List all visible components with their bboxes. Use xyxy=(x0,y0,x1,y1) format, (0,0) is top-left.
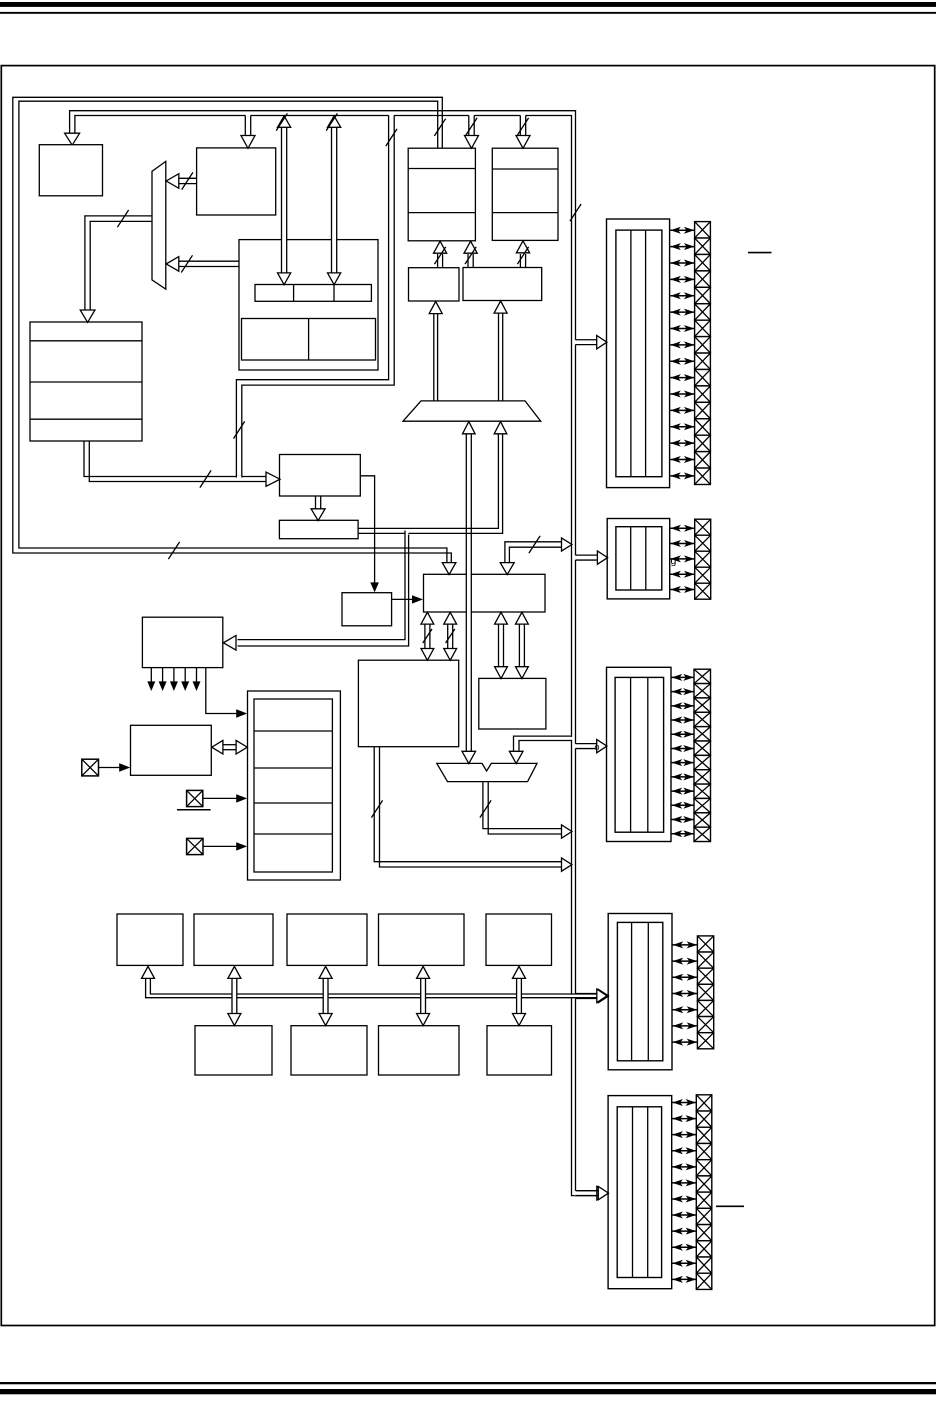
port block 2 inner divider 2 xyxy=(645,527,647,590)
thin wire box13 to stack xyxy=(206,668,237,714)
up arrowhead into row1 box xyxy=(228,966,241,978)
TRAP1 horizontal trapezoid xyxy=(403,401,541,421)
down arrowhead into row2 box xyxy=(228,1014,241,1026)
port block 4 inner divider 1 xyxy=(631,922,633,1060)
wire box6 up to box4 xyxy=(519,254,521,268)
port block 5 pin arrow 9 xyxy=(672,1230,696,1232)
up arrowhead into row1 box xyxy=(417,966,430,978)
port block 3 pin pad 12 xyxy=(694,827,711,841)
wire main data bus H1/B1 (inner line) xyxy=(75,116,598,1196)
box9 row line 1 xyxy=(30,340,142,342)
port block 5 pin pad 12 xyxy=(696,1273,712,1289)
box6 latch B xyxy=(463,268,542,301)
solid arrowhead into box12 top xyxy=(370,582,379,592)
stack inner box xyxy=(254,699,332,872)
wire program-memory bus loop (outer line) xyxy=(13,97,452,563)
port block 3 pin arrow 8 xyxy=(672,776,694,778)
port block 1 inner divider 1 xyxy=(630,230,632,477)
row bus riser up at x423.1 xyxy=(420,993,425,999)
row bus riser up at x519.0 xyxy=(516,993,521,999)
down arrowhead B2 into TRAP2 xyxy=(462,751,476,763)
wire box5 up to box3 xyxy=(437,254,439,268)
port block 3 pin pad 5 xyxy=(694,727,711,741)
box3 row line 2 xyxy=(408,212,475,214)
wire TRAP1 top to box5 xyxy=(433,313,435,401)
stack row line 2 xyxy=(254,767,332,769)
port block 4 inner box xyxy=(617,922,662,1060)
port block 5 pin pad 3 xyxy=(696,1127,712,1143)
box3 row line 1 xyxy=(408,168,475,170)
wire B2 TRAP1-box11-TRAP2 vertical xyxy=(467,434,471,751)
arrowhead W1 into bus xyxy=(562,825,572,838)
wire W4 box11/bus link xyxy=(505,542,562,563)
port block 3 pin arrow 4 xyxy=(672,719,694,721)
box8 xyxy=(280,455,361,497)
slash on box7-mux1 wire xyxy=(181,255,192,272)
port block 5 outer box xyxy=(608,1096,672,1289)
arrowhead W4 into bus xyxy=(562,538,572,551)
wire W3 bus to TRAP2 xyxy=(571,737,573,740)
wire mux1 output to box9 xyxy=(85,216,152,311)
up arrowhead box16 riser 2 xyxy=(516,612,529,624)
port block 1 pin pad 11 xyxy=(695,386,711,402)
port block 1 pin pad 7 xyxy=(695,320,711,336)
slash on ALU riser 2 xyxy=(446,629,455,643)
slash on program bus branch (lower vertical) xyxy=(234,421,245,438)
port block 4 pin arrow 6 xyxy=(673,1025,697,1027)
up arrowhead ALU riser 1 xyxy=(421,612,434,624)
arrowhead into port block 5 xyxy=(598,1186,608,1199)
up arrowhead at bus x334 xyxy=(328,116,341,127)
port block 1 pin pad 10 xyxy=(695,369,711,385)
port block 4 outer box xyxy=(608,914,672,1070)
up arrowhead B2 into TRAP1 xyxy=(463,422,476,434)
wire branch from bus into box3 xyxy=(469,115,474,117)
port block 2 pin pad 4 xyxy=(695,567,711,583)
row1 peripheral box a xyxy=(117,914,183,965)
port block 5 pin arrow 4 xyxy=(672,1150,696,1152)
arrowhead of bus into box1 xyxy=(65,133,80,145)
down arrowhead box16 riser 2 xyxy=(516,667,529,679)
port block 3 pin pad 1 xyxy=(694,669,711,683)
big ALU box xyxy=(358,660,458,747)
arrowhead into mux1 (lower) xyxy=(166,257,179,272)
port block 5 pin pad 7 xyxy=(696,1192,712,1208)
arrowhead into box3 top xyxy=(465,136,479,149)
box7 cell divider 2 xyxy=(333,285,335,302)
arrowhead into box8 xyxy=(266,472,280,486)
wire branch from bus into box2 xyxy=(246,115,251,117)
arrowhead into box3 bottom xyxy=(434,241,447,253)
port block 5 pin arrow 3 xyxy=(672,1134,696,1136)
thin dangling arrows below box13 xyxy=(150,668,152,682)
wire box9 bottom to box8 xyxy=(84,441,267,476)
down arrowhead ALU riser 1 xyxy=(421,649,434,661)
port block 5 inner divider 2 xyxy=(647,1107,649,1278)
port block 2 pin pad 3 xyxy=(695,551,711,567)
port block 1 pin pad 1 xyxy=(695,222,711,238)
wire bus to port block 3 xyxy=(575,744,577,749)
port block 4 pin arrow 1 xyxy=(673,944,697,946)
port block 1 pin pad 12 xyxy=(695,402,711,418)
arrowhead into box13 xyxy=(223,636,236,651)
svg-text:g: g xyxy=(671,555,677,567)
slash on riser x284 xyxy=(276,113,287,130)
wire ALU riser 1 xyxy=(424,624,426,649)
box5 latch A xyxy=(409,268,460,301)
port block 3 pin pad 7 xyxy=(694,755,711,769)
mux1 vertical trapezoid xyxy=(152,161,166,289)
slash on branch into box3 xyxy=(466,118,477,135)
port block 2 pin arrow 3 xyxy=(670,558,694,560)
port block 2 pin arrow 2 xyxy=(670,543,694,545)
row2 peripheral box d xyxy=(487,1026,552,1075)
arrowhead into box5 bottom xyxy=(429,301,442,313)
port block 3 outer box xyxy=(607,667,672,841)
arrowhead into box9 top xyxy=(80,310,95,322)
box11 wide latch xyxy=(424,574,546,612)
TRAP2 notched trapezoid xyxy=(437,763,537,781)
port block 5 pin pad 11 xyxy=(696,1257,712,1273)
port block 4 pin arrow 7 xyxy=(673,1041,697,1043)
box1 top-left register xyxy=(39,145,102,196)
box10 thin latch xyxy=(279,520,358,538)
port block 3 inner divider 2 xyxy=(647,677,649,832)
port block 5 pin arrow 7 xyxy=(672,1198,696,1200)
port block 1 pin pad 16 xyxy=(695,468,711,484)
port block 1 outer box xyxy=(607,219,670,488)
wire W1 TRAP2 output to bus xyxy=(483,782,562,829)
port block 5 pin pad 1 xyxy=(696,1095,712,1111)
tick mark right of port block 5 xyxy=(716,1205,744,1207)
slash on branch into box4 xyxy=(517,118,528,135)
arrowhead into port block 3 xyxy=(597,739,607,752)
slash on W1 xyxy=(480,800,491,817)
wire box8 down to box10 xyxy=(315,496,317,510)
port block 1 pin arrow 9 xyxy=(670,360,694,362)
port block 4 pin pad 2 xyxy=(697,952,713,968)
wire bus to port block 2 xyxy=(575,555,577,560)
port block 2 pin arrow 5 xyxy=(670,589,694,591)
port block 5 pin arrow 10 xyxy=(672,1246,696,1248)
port block 5 pin pad 10 xyxy=(696,1241,712,1257)
port block 1 pin arrow 13 xyxy=(670,426,694,428)
header thick rule xyxy=(0,2,936,7)
port block 1 pin arrow 3 xyxy=(670,262,694,264)
wire box10 to TRAP1 bottom xyxy=(358,434,498,529)
pin pad X1 (left) xyxy=(82,759,99,776)
port block 3 pin pad 9 xyxy=(694,784,711,798)
pin pad X2 xyxy=(187,790,203,806)
port block 2 inner box xyxy=(616,527,662,590)
arrowhead W4 into box11 top xyxy=(500,563,514,575)
slash on program bus branch (upper) xyxy=(386,129,397,146)
box7 lower sub-box xyxy=(242,319,376,361)
wire peripheral row bus xyxy=(570,995,576,997)
wire W2 ALU output to bus xyxy=(374,747,562,862)
port block 3 pin arrow 1 xyxy=(672,676,694,678)
port block 4 pin arrow 3 xyxy=(673,976,697,978)
port block 5 pin arrow 12 xyxy=(672,1278,696,1280)
row bus riser up at x234.4 xyxy=(232,993,237,999)
wire branch from box10 wire down-left to box13 xyxy=(405,533,408,535)
port block 3 pin arrow 12 xyxy=(672,833,694,835)
box12 small xyxy=(342,593,392,626)
port block 1 pin arrow 8 xyxy=(670,344,694,346)
port block 3 pin pad 2 xyxy=(694,684,711,698)
up arrowhead into row1 box xyxy=(319,966,332,978)
port block 1 pin pad 8 xyxy=(695,337,711,353)
down arrowhead box16 riser 1 xyxy=(495,667,508,679)
thin wire pad X3 to stack xyxy=(203,845,237,847)
port block 2 pin arrow 1 xyxy=(670,527,694,529)
port block 2 pin pad 2 xyxy=(695,535,711,551)
row1 peripheral box c xyxy=(287,914,367,965)
wire box14-stack bidirectional xyxy=(223,744,237,746)
port block 5 inner divider 1 xyxy=(632,1107,634,1278)
down arrowhead ALU riser 2 xyxy=(444,649,457,661)
port block 4 pin pad 3 xyxy=(697,968,713,984)
port block 1 pin arrow 10 xyxy=(670,377,694,379)
port block 3 inner box xyxy=(615,677,664,832)
arrowhead of bus into port block 5 xyxy=(597,1187,607,1200)
arrowhead into mux1 (upper) xyxy=(166,174,179,189)
port block 3 pin arrow 5 xyxy=(672,733,694,735)
up arrowhead at bus x284 xyxy=(278,116,291,127)
port block 1 pin pad 4 xyxy=(695,271,711,287)
header thin rule xyxy=(0,12,936,14)
port block 5 pin pad 9 xyxy=(696,1225,712,1241)
port block 3 pin arrow 7 xyxy=(672,762,694,764)
footer thick rule xyxy=(0,1389,936,1394)
box2 instruction latch xyxy=(197,148,276,215)
stack row line 3 xyxy=(254,802,332,804)
port block 1 pin arrow 11 xyxy=(670,393,694,395)
down arrowhead into row2 box xyxy=(417,1014,430,1026)
row2 peripheral box c xyxy=(379,1026,460,1075)
wire bus to port block 4 xyxy=(575,994,577,999)
tick mark right of port block 1 xyxy=(748,252,772,254)
slash on box2-mux1 wire xyxy=(182,172,193,189)
box14 oscillator xyxy=(131,725,212,775)
down arrowhead of loop into box11 top xyxy=(442,563,456,575)
wire box2 to mux1 xyxy=(179,177,197,179)
port block 1 pin arrow 4 xyxy=(670,278,694,280)
box7 sub-box divider xyxy=(308,319,310,361)
port block 5 pin arrow 11 xyxy=(672,1262,696,1264)
port block 1 pin arrow 6 xyxy=(670,311,694,313)
row1 peripheral box b xyxy=(194,914,273,965)
port block 3 pin arrow 11 xyxy=(672,819,694,821)
underline below pad X2 xyxy=(177,809,211,811)
up arrowhead box16 riser 1 xyxy=(495,612,508,624)
thin wire pad X2 to stack xyxy=(203,797,237,799)
arrowhead into box3 bottom right xyxy=(464,241,477,253)
port block 5 pin arrow 5 xyxy=(672,1166,696,1168)
port block 5 pin pad 5 xyxy=(696,1160,712,1176)
slash on mux1-box9 wire xyxy=(117,210,128,227)
box7 decode block outline xyxy=(239,240,378,370)
port block 3 pin pad 4 xyxy=(694,712,711,726)
port block 1 pin pad 13 xyxy=(695,419,711,435)
box4 register with rows xyxy=(492,148,558,240)
slash on box6-box3 riser xyxy=(465,247,476,264)
port block 1 pin pad 2 xyxy=(695,238,711,254)
port block 1 pin pad 9 xyxy=(695,353,711,369)
port block 1 pin pad 6 xyxy=(695,304,711,320)
box9 stacked register xyxy=(30,322,142,441)
port block 3 pin arrow 9 xyxy=(672,790,694,792)
thin wire box8 to box12 xyxy=(360,476,374,585)
port block 2 inner divider 1 xyxy=(630,527,632,590)
box7 cell divider 1 xyxy=(293,285,295,302)
arrowhead row bus into port block 4 xyxy=(597,989,607,1002)
wire program bus branch from H1 down-left-down to box8 run xyxy=(389,115,394,117)
port block 5 inner box xyxy=(617,1107,661,1278)
box16 xyxy=(479,678,546,729)
down arrowhead W3 into TRAP2 xyxy=(509,751,523,763)
slash on riser x334 xyxy=(326,113,337,130)
up arrowhead into row1 box a xyxy=(142,966,155,978)
port block 1 pin pad 14 xyxy=(695,435,711,451)
port block 5 pin arrow 6 xyxy=(672,1182,696,1184)
arrowhead into box4 bottom xyxy=(516,241,529,253)
down arrowhead into box7 cells x284 xyxy=(278,273,291,285)
port block 1 pin arrow 14 xyxy=(670,442,694,444)
port block 5 pin pad 6 xyxy=(696,1176,712,1192)
port block 4 inner divider 2 xyxy=(647,922,649,1060)
bus-width slash on B1 below top corner xyxy=(570,204,581,221)
port block 2 pin pad 5 xyxy=(695,583,711,599)
slash on box5-box3 riser xyxy=(435,247,446,264)
up arrowhead ALU riser 2 xyxy=(444,612,457,624)
up arrowhead into row1 box xyxy=(513,966,526,978)
left arrowhead at box14 xyxy=(212,740,223,754)
port block 3 pin arrow 10 xyxy=(672,804,694,806)
port block 1 pin pad 3 xyxy=(695,254,711,270)
wire box6 up to box3 xyxy=(467,254,469,268)
port block 4 pin pad 1 xyxy=(697,936,713,952)
thin wire pad X1 to box14 xyxy=(99,767,121,769)
wire bus to port block 1 xyxy=(575,340,577,345)
wire program-memory bus loop (inner line) xyxy=(19,101,447,563)
port block 3 pin pad 11 xyxy=(694,813,711,827)
down arrowhead into row2 box xyxy=(513,1014,526,1026)
port block 3 inner divider 1 xyxy=(630,677,632,832)
arrowhead into box10 xyxy=(311,509,325,521)
svg-text:o: o xyxy=(595,742,600,752)
arrowhead into port block 2 xyxy=(597,551,607,564)
row bus riser up at x325.6 xyxy=(323,993,328,999)
wire box16 riser 2 xyxy=(518,624,520,667)
port block 3 pin arrow 6 xyxy=(672,747,694,749)
port block 3 pin pad 8 xyxy=(694,770,711,784)
stack row line 4 xyxy=(254,833,332,835)
wire box16 riser 1 xyxy=(498,624,500,667)
port block 5 pin pad 4 xyxy=(696,1143,712,1159)
port block 4 pin pad 6 xyxy=(697,1017,713,1033)
wire box7 to mux1 xyxy=(179,260,239,262)
box3 register with rows xyxy=(408,148,475,241)
down arrowhead into row2 box xyxy=(319,1014,332,1026)
wire branch from bus into box4 xyxy=(520,115,525,117)
wire bus to port block 5 xyxy=(575,1191,577,1196)
wire TRAP1 top to box6 xyxy=(498,313,500,401)
row1 peripheral box d xyxy=(379,914,465,965)
slash on box6-box4 riser xyxy=(517,247,528,264)
wire main data bus H1/B1 (outer line) xyxy=(70,111,598,1191)
arrowhead into box6 bottom xyxy=(494,301,507,313)
port block 2 outer box xyxy=(607,519,670,599)
port block 4 pin arrow 5 xyxy=(673,1009,697,1011)
port block 4 pin arrow 4 xyxy=(673,993,697,995)
port block 1 pin arrow 16 xyxy=(670,475,694,477)
right arrowhead at stack xyxy=(236,740,247,754)
port block 5 pin arrow 1 xyxy=(672,1102,696,1104)
port block 5 pin arrow 8 xyxy=(672,1214,696,1216)
port block 1 pin arrow 2 xyxy=(670,246,694,248)
stack row line 1 xyxy=(254,730,332,732)
bus-width slash on loop bottom run xyxy=(168,542,179,559)
port block 5 pin arrow 2 xyxy=(672,1118,696,1120)
arrowhead into box4 top xyxy=(516,136,530,149)
port block 1 inner divider 2 xyxy=(645,230,647,477)
box4 row line 2 xyxy=(492,212,558,214)
pin pad X3 xyxy=(187,838,203,854)
port block 4 pin pad 4 xyxy=(697,984,713,1000)
port block 1 inner box xyxy=(616,230,662,477)
wire bidirectional riser bus-box7 at x334 xyxy=(332,239,337,241)
solid arrowhead into box11 left xyxy=(412,595,423,603)
port block 1 pin pad 5 xyxy=(695,287,711,303)
port block 1 pin arrow 7 xyxy=(670,328,694,330)
slash on W4 xyxy=(529,536,540,553)
footer thin rule xyxy=(0,1382,936,1384)
port block 1 pin pad 15 xyxy=(695,452,711,468)
box7 three-cell row xyxy=(255,285,371,302)
port block 3 pin arrow 3 xyxy=(672,705,694,707)
box4 row line 1 xyxy=(492,168,558,170)
port block 4 pin arrow 2 xyxy=(673,960,697,962)
box9 row line 2 xyxy=(30,381,142,383)
port block 5 pin pad 8 xyxy=(696,1208,712,1224)
box9 row line 3 xyxy=(30,418,142,420)
port block 2 pin arrow 4 xyxy=(670,573,694,575)
port block 1 pin arrow 5 xyxy=(670,295,694,297)
port block 3 pin pad 6 xyxy=(694,741,711,755)
box13 control xyxy=(142,617,222,667)
port block 3 pin pad 10 xyxy=(694,798,711,812)
port block 1 pin arrow 12 xyxy=(670,409,694,411)
arrowhead into port block 4 xyxy=(598,989,608,1002)
row2 peripheral box b xyxy=(291,1026,367,1075)
port block 3 pin pad 3 xyxy=(694,698,711,712)
arrowhead into port block 1 xyxy=(597,336,607,349)
wire ALU riser 2 xyxy=(447,624,449,649)
slash on ALU riser 1 xyxy=(423,629,432,643)
thin wire box12 to box11 xyxy=(392,598,414,600)
solid arrowhead into stack (from box13) xyxy=(236,709,247,717)
port block 1 pin arrow 1 xyxy=(670,229,694,231)
arrowhead W2 into bus xyxy=(562,858,572,871)
down arrowhead into box7 cells x334 xyxy=(328,273,341,285)
row1 peripheral box e xyxy=(486,914,552,965)
port block 1 pin arrow 15 xyxy=(670,458,694,460)
port block 3 pin arrow 2 xyxy=(672,691,694,693)
row2 peripheral box a xyxy=(195,1026,272,1075)
port block 2 pin pad 1 xyxy=(695,519,711,535)
slash on W2 xyxy=(371,800,382,817)
